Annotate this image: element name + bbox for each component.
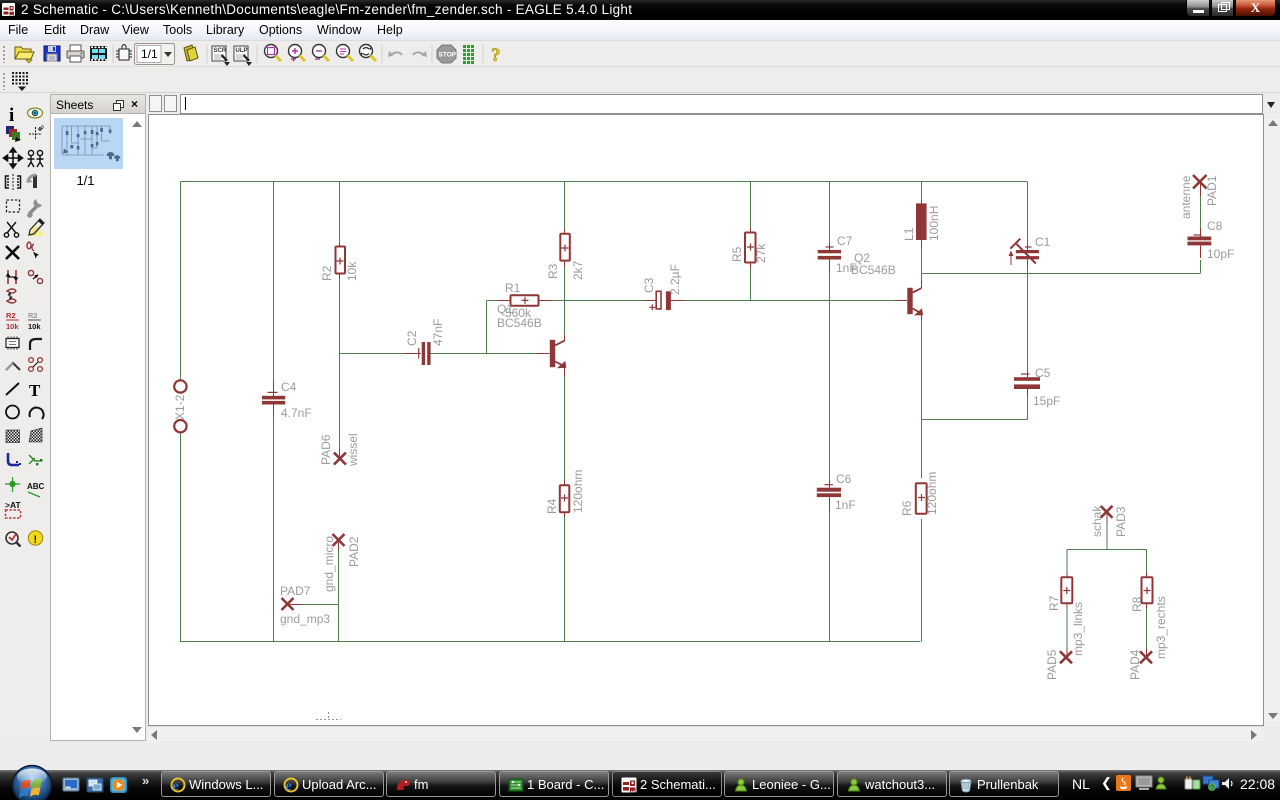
svg-text:C5: C5	[1035, 366, 1051, 380]
svg-text:R2: R2	[320, 265, 334, 281]
svg-text:STOP: STOP	[439, 52, 457, 59]
svg-text:schak: schak	[1090, 505, 1104, 537]
svg-text:?: ?	[491, 45, 501, 66]
svg-text:R4: R4	[545, 498, 559, 514]
svg-text:15pF: 15pF	[1033, 394, 1060, 408]
svg-text:gnd_mp3: gnd_mp3	[280, 612, 330, 626]
svg-text:mp3_links: mp3_links	[1071, 602, 1085, 656]
svg-text:e: e	[173, 779, 179, 793]
svg-text:R2: R2	[28, 311, 38, 320]
svg-text:10pF: 10pF	[1207, 247, 1234, 261]
svg-text:120ohm: 120ohm	[571, 470, 585, 513]
svg-text:100nH: 100nH	[927, 206, 941, 241]
svg-text:2.2µF: 2.2µF	[668, 264, 682, 295]
svg-text:R7: R7	[1047, 595, 1061, 611]
svg-text:X1-2: X1-2	[173, 394, 187, 420]
svg-text:PAD5: PAD5	[1045, 649, 1059, 680]
svg-text:C3: C3	[642, 277, 656, 293]
svg-text:C2: C2	[405, 330, 419, 346]
svg-text:10k: 10k	[28, 322, 41, 331]
svg-text:C6: C6	[836, 472, 852, 486]
svg-text:R1: R1	[505, 281, 521, 295]
svg-text:ULP: ULP	[236, 48, 248, 54]
svg-text:4.7nF: 4.7nF	[281, 406, 312, 420]
svg-text:antenne: antenne	[1179, 175, 1193, 219]
svg-text:R5: R5	[730, 246, 744, 262]
svg-text:gnd_micro: gnd_micro	[322, 536, 336, 592]
svg-text:PAD4: PAD4	[1128, 649, 1142, 680]
svg-text:27k: 27k	[754, 243, 768, 263]
svg-text:e: e	[286, 779, 292, 793]
svg-text:C1: C1	[1035, 235, 1051, 249]
svg-text:i: i	[9, 105, 14, 126]
svg-text:PAD7: PAD7	[280, 584, 311, 598]
svg-text:1/1: 1/1	[141, 47, 158, 61]
svg-text:!: !	[34, 534, 38, 546]
svg-text:BC546B: BC546B	[851, 263, 896, 277]
svg-text:10k: 10k	[6, 322, 19, 331]
svg-text:1nF: 1nF	[835, 498, 856, 512]
svg-text:PAD3: PAD3	[1114, 506, 1128, 537]
svg-text:SCR: SCR	[214, 48, 227, 54]
svg-text:>AT: >AT	[5, 500, 21, 510]
svg-text:R6: R6	[900, 500, 914, 516]
svg-text:C8: C8	[1207, 219, 1223, 233]
svg-text:47nF: 47nF	[431, 319, 445, 346]
svg-text:C4: C4	[281, 380, 297, 394]
svg-text:ABC: ABC	[27, 482, 45, 491]
svg-text:2k7: 2k7	[571, 260, 585, 280]
svg-text:120ohm: 120ohm	[925, 472, 939, 515]
svg-text:R2: R2	[6, 311, 16, 320]
svg-text:PAD1: PAD1	[1205, 175, 1219, 206]
svg-text:mp3_rechts: mp3_rechts	[1154, 596, 1168, 659]
svg-text:10k: 10k	[345, 261, 359, 281]
svg-text:wissel: wissel	[346, 433, 360, 467]
svg-text:PAD2: PAD2	[347, 536, 361, 567]
svg-text:PAD6: PAD6	[319, 434, 333, 465]
svg-text:R3: R3	[546, 263, 560, 279]
svg-text:BC546B: BC546B	[497, 316, 542, 330]
svg-text:L1: L1	[902, 227, 916, 241]
svg-text:T: T	[29, 381, 41, 400]
svg-text:R8: R8	[1130, 596, 1144, 612]
svg-text:9: 9	[41, 125, 44, 131]
svg-text:C7: C7	[837, 234, 853, 248]
